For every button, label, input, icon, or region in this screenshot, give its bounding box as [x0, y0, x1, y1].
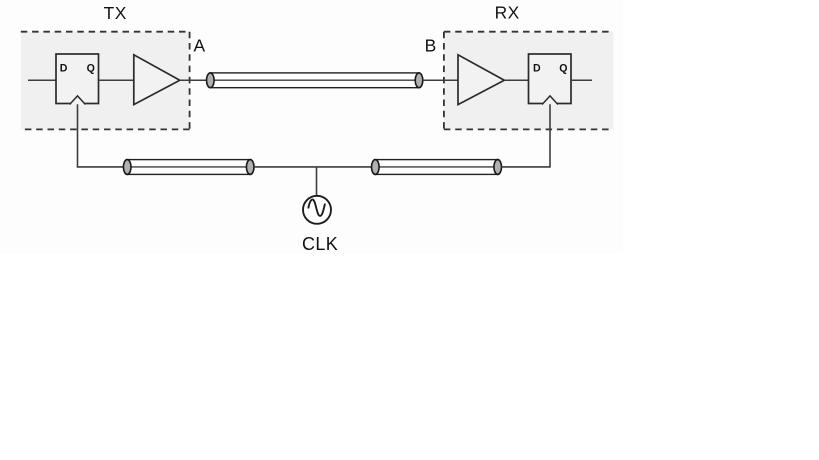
svg-text:B: B: [425, 36, 437, 56]
svg-text:A: A: [194, 36, 206, 56]
wire RX clock vertical: [549, 104, 551, 167]
RX block enclosure (dashed box): [444, 32, 613, 130]
flip-flop RX (D-Q): [529, 54, 572, 105]
svg-text:TX: TX: [104, 3, 127, 23]
wire RX buffer to RX FF: [504, 79, 528, 81]
transmission line CLK right (cylinder): [372, 160, 502, 175]
svg-text:D: D: [533, 62, 541, 74]
wire RX FF output: [571, 79, 592, 81]
wire TX clock horizontal: [77, 166, 124, 168]
clock caret TX: [70, 96, 86, 105]
wire TX buffer to node A / transmission line: [180, 79, 207, 81]
wire transmission line to node B / RX buffer: [423, 79, 458, 81]
clock source CLK (sine source circle): [303, 196, 331, 224]
wire TX input: [28, 79, 56, 81]
svg-text:CLK: CLK: [302, 234, 338, 254]
wire TX FF to buffer: [99, 79, 134, 81]
wire TX clock vertical: [77, 104, 79, 167]
wire clock right segment: [502, 166, 551, 168]
diagram canvas background: [0, 0, 623, 254]
svg-text:D: D: [60, 62, 68, 74]
svg-text:RX: RX: [495, 3, 520, 23]
transmission line CLK left (cylinder): [123, 160, 254, 175]
TX block enclosure (dashed box): [21, 32, 190, 130]
flip-flop TX (D-Q): [56, 54, 99, 105]
svg-text:Q: Q: [87, 62, 95, 74]
junction to clock source: [316, 167, 318, 196]
wire clock middle segment: [254, 166, 372, 168]
clock caret RX: [542, 96, 558, 105]
buffer TX (triangle): [134, 55, 180, 105]
buffer RX (triangle): [458, 55, 504, 105]
svg-text:Q: Q: [559, 62, 567, 74]
transmission line A-B (cylinder): [207, 73, 423, 88]
